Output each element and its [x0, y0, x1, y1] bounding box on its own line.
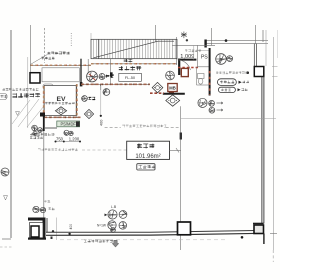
top boundary double line: [205, 40, 268, 42]
tiny caption row: [216, 72, 248, 75]
grid line x30: [29, 25, 31, 73]
balcony caption small: [2, 88, 38, 91]
pill legend 2: [218, 87, 235, 92]
svg-text:FL-50: FL-50: [125, 75, 136, 80]
small circle left: [82, 96, 88, 102]
grid line x156: [155, 25, 157, 42]
main bottom wall double line: [46, 230, 264, 232]
vent symbols cluster: [32, 125, 38, 131]
fan small: [227, 56, 233, 62]
EV door pill: [43, 84, 53, 89]
bottom bar: [28, 238, 46, 240]
PS room walls: [196, 45, 198, 67]
right wall grid up: [254, 25, 256, 44]
label hinan kaidan: [119, 66, 141, 70]
tick x91: [90, 33, 92, 40]
thin vertical right of shaft: [56, 218, 58, 241]
wall vertical black x179: [178, 59, 180, 75]
column C2: [254, 67, 263, 77]
grid x266: [265, 30, 267, 66]
svg-text:400: 400: [100, 120, 104, 126]
right wall black: [209, 48, 211, 96]
small note x44: [44, 200, 50, 203]
thick tick on center line: [180, 133, 182, 140]
left mid vertical wall: [43, 131, 45, 218]
stairs direction line: [94, 41, 175, 58]
fan symbol top-right large: [216, 54, 227, 65]
pill legend 1: [218, 79, 237, 86]
maroon stub below MB: [169, 92, 174, 94]
office label box: [127, 141, 170, 159]
x47 wall: [46, 218, 48, 232]
corridor wall x81: [80, 59, 82, 85]
EV hall room: [42, 68, 79, 82]
svg-text:L.B: L.B: [111, 205, 117, 209]
dashed grid x44: [44, 28, 46, 63]
small marker: [4, 196, 8, 201]
circle legend big: [198, 98, 207, 107]
fan symbol small: [99, 74, 105, 80]
svg-text:1,009: 1,009: [180, 54, 194, 60]
office leader: [170, 149, 182, 151]
diamond symbol: [84, 109, 93, 118]
grid tick x211: [211, 28, 213, 46]
faint horizontal y118: [181, 117, 276, 119]
wall x110: [110, 59, 112, 85]
EV capacity caption: [45, 102, 75, 105]
left end wall bits: [2, 238, 11, 240]
PS/MDF duct box: [57, 121, 80, 127]
right ticks: [272, 65, 278, 67]
column C4 corner: [254, 225, 264, 234]
right outer line: [273, 37, 275, 250]
FL-50 box: [119, 73, 142, 81]
door arc: [178, 60, 191, 70]
tick below fire wall: [100, 84, 102, 90]
room top line: [172, 44, 215, 46]
circle legend 1: [209, 100, 215, 106]
wall end tick: [270, 233, 277, 235]
grid line left wall: [10, 30, 12, 238]
corridor fire wall: [81, 83, 150, 85]
antenna caption: [185, 50, 201, 53]
dim 400 vertical: [100, 86, 102, 117]
survey star symbol: [181, 32, 187, 39]
kanki label: [106, 75, 114, 78]
faint dashed below wall: [60, 239, 225, 241]
down arrow: [112, 240, 119, 247]
outdoor evacuation stairs: [91, 39, 177, 58]
sprinkler note text: [122, 125, 166, 128]
hatch caption: [30, 133, 55, 136]
svg-text:101.96m²: 101.96m²: [135, 154, 160, 160]
shaft outer rect: [30, 223, 44, 239]
EV bottom fire wall: [44, 116, 81, 118]
balcony interior line: [27, 57, 29, 128]
svg-text:750: 750: [56, 137, 64, 142]
toilet room fixtures: [198, 74, 205, 79]
short wall left of box: [45, 127, 57, 129]
svg-text:EV: EV: [56, 96, 66, 103]
stairs bottom rail with hatch: [91, 63, 177, 65]
grid line x177: [176, 37, 178, 65]
shaft inner thick square: [31, 226, 39, 237]
svg-text:PS: PS: [201, 55, 208, 61]
red dash segment: [178, 67, 198, 69]
EV diamond symbol: [55, 107, 66, 115]
column C3 center bottom: [178, 222, 191, 235]
right wall double top: [253, 44, 255, 67]
faint right top line: [276, 30, 278, 58]
svg-text:400: 400: [69, 224, 73, 230]
label okugai: [124, 59, 133, 63]
circle legend 2: [209, 107, 215, 113]
red hatch on right wall: [209, 71, 211, 95]
hatch circles pair 1: [33, 206, 39, 212]
EV left wall hatch: [43, 86, 45, 118]
diamond left of MB: [152, 82, 163, 92]
note box below office: [137, 164, 155, 170]
wall stub at x205: [204, 40, 206, 48]
corner wall horizontal: [253, 223, 264, 225]
wall top black: [178, 59, 196, 61]
diamond below: [166, 95, 180, 106]
hatch caption top-left: [48, 52, 70, 55]
dimension line: [56, 141, 81, 143]
svg-text:N=1W: N=1W: [97, 224, 106, 228]
fan symbol large: [87, 71, 98, 82]
EV right wall hatch: [76, 84, 78, 118]
upper wall with fire hatch: [31, 64, 92, 66]
balcony corner wall: [40, 113, 45, 117]
column C1: [30, 73, 40, 83]
roof note text: [38, 148, 78, 151]
office kanji: [137, 144, 154, 149]
bottom-left wall top bar: [28, 218, 45, 221]
wall caption: [84, 240, 113, 243]
bottom-left wall vertical bar: [43, 218, 46, 239]
wall segment below MB: [163, 93, 185, 95]
MB box: [168, 84, 177, 92]
svg-text:PS/MDF: PS/MDF: [60, 122, 76, 127]
leader line: [31, 54, 48, 64]
balcony marker triangle: [16, 112, 20, 116]
balcony label: [13, 93, 41, 98]
fan below corridor: [103, 89, 110, 96]
center grid line: [180, 106, 182, 250]
wall x88: [87, 59, 89, 73]
vent circle left edge: [1, 168, 9, 176]
balcony hatch lines: [12, 99, 44, 127]
wall node: [76, 122, 80, 127]
right wall upper single: [262, 30, 264, 42]
dotted tick x71: [70, 33, 72, 46]
svg-text:MB: MB: [169, 86, 176, 91]
EV shaft: [44, 86, 76, 116]
red dashes left: [150, 92, 164, 94]
fire shaft square: [181, 68, 188, 76]
grid bubble left edge: [0, 94, 7, 100]
sprinkler note dashes: [105, 126, 121, 128]
fan circle: [166, 71, 175, 80]
corner vertical tip: [263, 234, 265, 245]
right wall double: [261, 77, 263, 224]
stairs landing line: [98, 39, 100, 58]
dot left of column: [246, 71, 249, 74]
svg-text:1,200: 1,200: [69, 137, 80, 142]
